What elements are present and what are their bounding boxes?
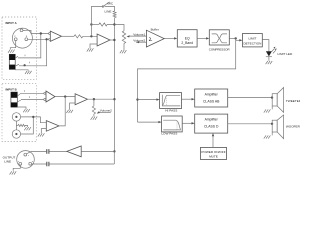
svg-text:INPUT A: INPUT A — [6, 21, 17, 25]
svg-text:LINE: LINE — [4, 160, 11, 164]
svg-text:Σ: Σ — [149, 37, 153, 43]
svg-text:Volume2: Volume2 — [100, 109, 112, 113]
svg-text:LINE: LINE — [105, 10, 112, 14]
svg-text:LIMIT: LIMIT — [248, 37, 256, 41]
svg-text:HI PASS: HI PASS — [165, 108, 177, 112]
svg-text:DETECTION: DETECTION — [243, 41, 261, 45]
svg-text:INPUT B: INPUT B — [6, 87, 17, 91]
svg-text:MIC: MIC — [108, 1, 114, 5]
svg-text:CLASS AB: CLASS AB — [203, 100, 220, 104]
svg-text:Amplifier: Amplifier — [205, 118, 219, 122]
svg-text:CLASS D: CLASS D — [204, 125, 219, 129]
svg-text:LIMIT LED: LIMIT LED — [278, 52, 293, 56]
svg-text:Volume1: Volume1 — [133, 32, 145, 36]
svg-text:Amplifier: Amplifier — [205, 93, 219, 97]
svg-text:2_Band: 2_Band — [181, 41, 193, 45]
svg-text:COMPRESSOR: COMPRESSOR — [209, 47, 230, 51]
svg-text:WOOFER: WOOFER — [286, 125, 300, 129]
svg-text:LOW PASS: LOW PASS — [161, 132, 177, 136]
svg-text:MUTE: MUTE — [209, 154, 218, 158]
svg-text:TWEETER: TWEETER — [286, 99, 300, 103]
svg-text:Buffer: Buffer — [151, 28, 159, 32]
svg-text:EQ: EQ — [185, 37, 190, 41]
